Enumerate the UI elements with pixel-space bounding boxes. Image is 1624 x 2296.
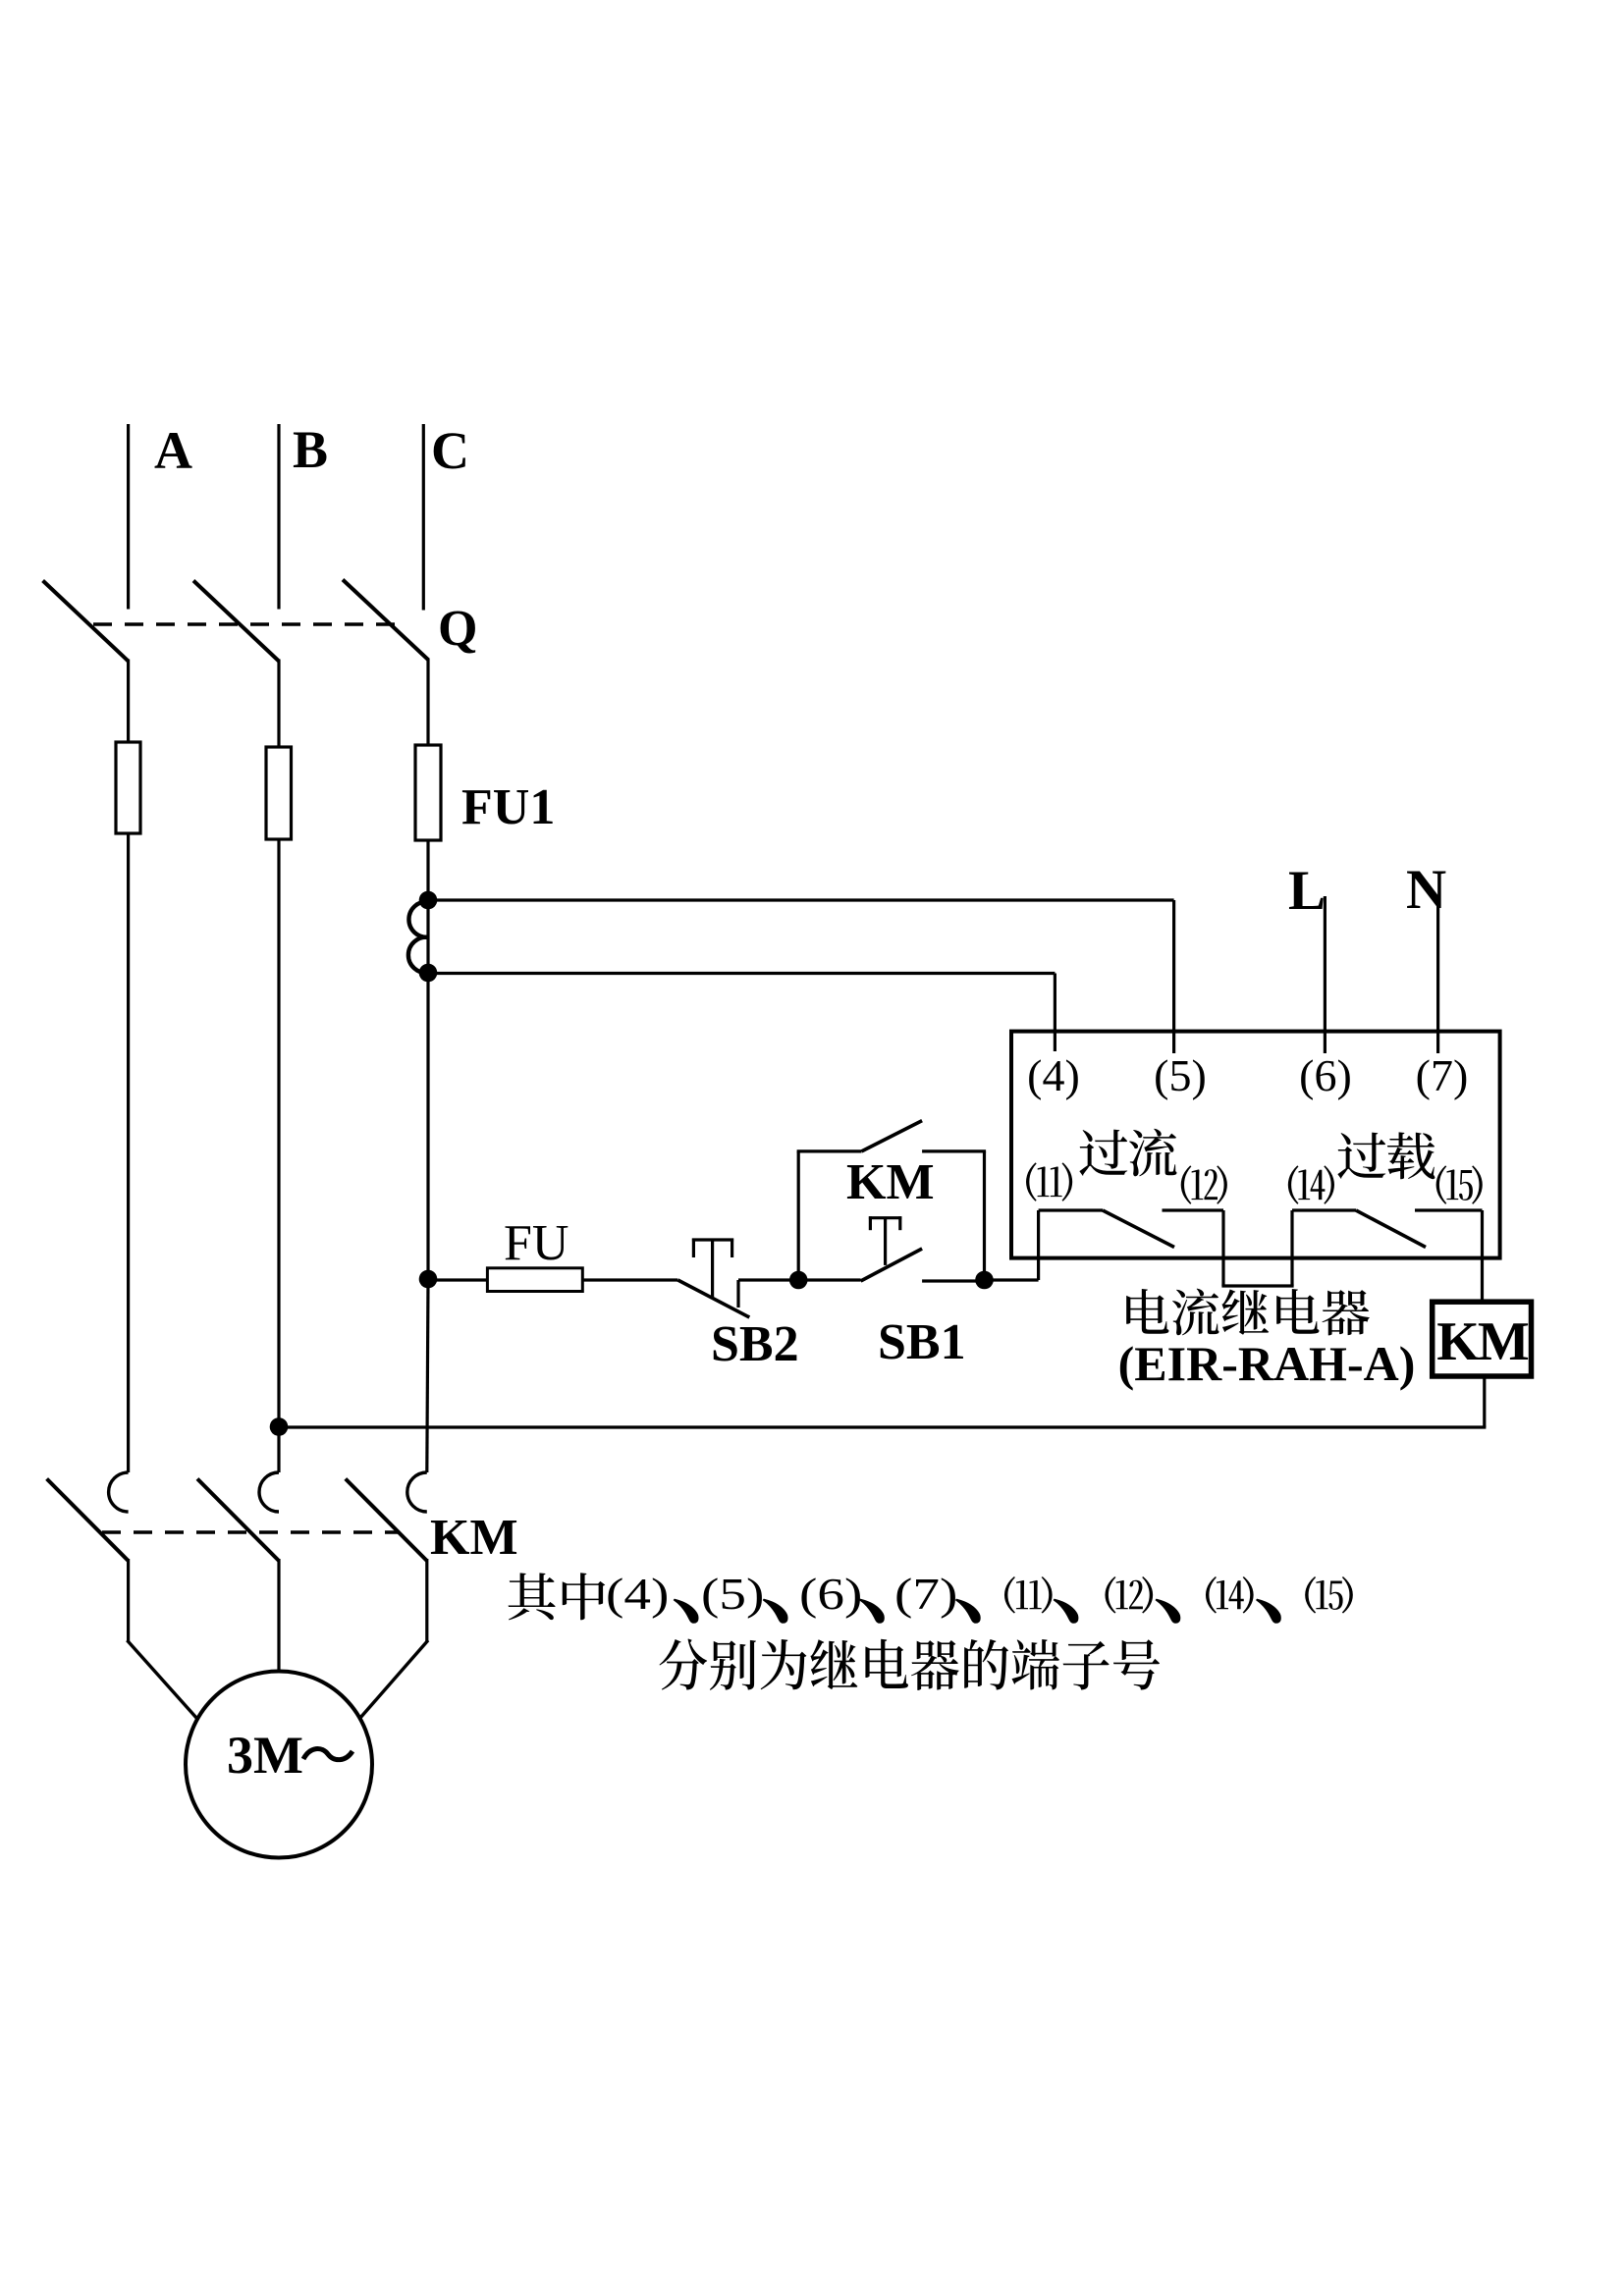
wire C CT-to-control-tap: [426, 973, 429, 1280]
switch Q pole B blade: [193, 581, 279, 662]
KM auxiliary contact blade: [862, 1121, 923, 1151]
svg-text:A: A: [154, 421, 192, 480]
pushbutton SB1 actuator: [884, 1218, 887, 1265]
wire C through CT: [426, 900, 429, 973]
wire C Q-to-FU1: [426, 659, 429, 747]
wire B KM-to-motor: [277, 1559, 280, 1671]
svg-text:(6): (6): [1299, 1050, 1352, 1100]
contactor KM pole C blade: [346, 1479, 427, 1562]
current relay (EIR-RAH-A) box: [1011, 1032, 1500, 1258]
pushbutton SB1 blade: [861, 1249, 923, 1281]
overload contact 14 terminal: [1292, 1208, 1356, 1211]
wire C KM-to-motor: [425, 1559, 428, 1641]
wire FU to SB2: [582, 1278, 677, 1281]
pin (14): [1288, 1165, 1334, 1203]
junction node SB1-KM: [975, 1271, 994, 1290]
wire KM coil to return: [1483, 1376, 1486, 1427]
svg-text:C: C: [431, 421, 469, 480]
junction node CT bottom: [419, 964, 438, 983]
wire 12-to-14 link: [1221, 1210, 1224, 1286]
KM auxiliary contact branch left: [797, 1151, 800, 1280]
label overcurrent 过流: [1079, 1130, 1127, 1176]
label 电流继电器: [1126, 1289, 1168, 1334]
wire L to relay (6): [1324, 896, 1326, 1053]
pushbutton SB2 actuator: [711, 1240, 714, 1298]
svg-text:KM: KM: [846, 1154, 935, 1210]
contactor KM pole A fixed contact arc: [109, 1472, 129, 1512]
overcurrent contact 12 terminal: [1163, 1208, 1224, 1211]
wire B FU1-to-KM: [277, 839, 280, 1472]
svg-text:SB2: SB2: [711, 1316, 799, 1372]
contactor KM pole B fixed contact arc: [259, 1472, 279, 1512]
overcurrent contact 11 terminal: [1039, 1208, 1103, 1211]
svg-text:L: L: [1288, 860, 1326, 922]
svg-text:SB1: SB1: [878, 1314, 966, 1370]
current transformer coils on C: [408, 901, 428, 973]
svg-text:(4): (4): [1027, 1050, 1080, 1100]
wire SB2 to node: [738, 1278, 798, 1281]
fuse FU1 pole A: [116, 742, 140, 833]
contactor coil KM box: [1433, 1302, 1532, 1376]
overload contact 15 terminal: [1415, 1208, 1483, 1211]
svg-text:(EIR-RAH-A): (EIR-RAH-A): [1118, 1336, 1416, 1391]
svg-text:(4): (4): [606, 1569, 669, 1619]
fuse FU1 pole B: [266, 747, 292, 839]
wire 15 to KM coil: [1481, 1210, 1484, 1302]
svg-text:3M: 3M: [227, 1726, 303, 1785]
pin (12): [1181, 1165, 1227, 1203]
overcurrent contact blade: [1103, 1210, 1174, 1248]
wire node to relay 11: [985, 1278, 1039, 1281]
contactor KM pole A blade: [47, 1479, 129, 1562]
pin (15): [1436, 1165, 1483, 1203]
pushbutton SB2 contact tick: [736, 1280, 739, 1308]
wire C FU1-to-CT: [426, 840, 429, 901]
svg-text:(7): (7): [1416, 1050, 1469, 1100]
wire A KM-to-motor: [127, 1559, 130, 1641]
svg-text:(7): (7): [894, 1569, 957, 1619]
wire C control-tap-to-KM: [427, 1280, 428, 1472]
junction node return on B: [270, 1417, 289, 1436]
wire A Q-to-FU1: [127, 660, 130, 744]
svg-text:FU1: FU1: [461, 779, 555, 835]
motor M circle: [186, 1672, 372, 1858]
svg-text:(6): (6): [799, 1569, 862, 1619]
overload contact blade: [1356, 1210, 1426, 1248]
contactor KM pole C fixed contact arc: [407, 1472, 427, 1512]
fuse FU1 pole C: [415, 745, 441, 840]
wire phase B (top): [277, 424, 280, 610]
wire C to FU: [428, 1278, 487, 1281]
wire N to relay (7): [1436, 896, 1439, 1053]
contactor KM pole B blade: [197, 1479, 279, 1562]
label overload 过载: [1337, 1133, 1385, 1179]
wire phase C (top): [422, 424, 425, 611]
switch Q linkage (dashed): [93, 622, 397, 625]
wire SB1 to node: [922, 1279, 984, 1282]
svg-text:KM: KM: [1436, 1311, 1529, 1372]
svg-text:B: B: [293, 420, 328, 479]
KM auxiliary contact branch right: [922, 1149, 986, 1152]
contactor KM linkage (dashed): [102, 1530, 399, 1533]
svg-text:Q: Q: [438, 601, 477, 657]
junction node CT top: [419, 891, 438, 910]
wire CT-top to relay (5): [428, 898, 1174, 901]
wire node to SB1: [798, 1278, 860, 1281]
junction node SB2-KM: [789, 1271, 808, 1290]
svg-text:FU: FU: [504, 1215, 568, 1271]
wire A FU1-to-KM: [127, 833, 130, 1472]
svg-text:(5): (5): [701, 1569, 764, 1619]
switch Q pole C blade: [343, 580, 428, 661]
junction node control tap on C: [419, 1270, 438, 1289]
note line 1: 其中(4)、(5)、(6)、(7)、(11)、(12)、(14)、(15): [509, 1573, 556, 1620]
svg-text:N: N: [1406, 859, 1446, 921]
note line 2: 分别为继电器的端子号: [659, 1639, 707, 1690]
fuse FU (control): [487, 1268, 582, 1292]
pushbutton SB2 blade: [677, 1280, 749, 1317]
pin (11): [1026, 1162, 1072, 1201]
wire CT-bottom to relay (4): [428, 972, 1055, 975]
wire B Q-to-FU1: [277, 660, 280, 749]
svg-text:KM: KM: [430, 1510, 518, 1566]
svg-text:(5): (5): [1154, 1050, 1207, 1100]
node A / phase line A (top): [127, 424, 130, 610]
switch Q pole A blade: [43, 581, 129, 662]
